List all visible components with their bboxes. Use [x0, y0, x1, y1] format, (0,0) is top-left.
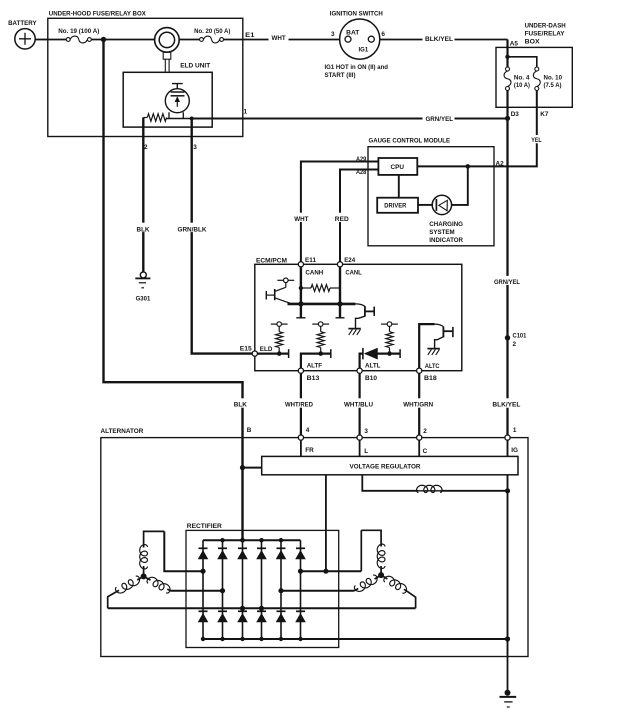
wire ELD pin2 BLK to G301 [142, 118, 144, 272]
diode D8 bottom [199, 610, 208, 612]
ELD unit resistor R1 [143, 117, 147, 119]
diode D10 bottom [238, 610, 247, 612]
wire E1 to ignition switch, WHT [243, 39, 340, 41]
wire B BLK down to rectifier [241, 438, 243, 541]
diode D3 top [218, 547, 227, 549]
terminal 4 FR [298, 435, 303, 440]
wire WHT/GRN B18 to alternator C [418, 373, 420, 435]
svg-text:BLK: BLK [234, 402, 247, 409]
svg-text:D3: D3 [511, 111, 520, 118]
diode D5 top [257, 547, 266, 549]
wire C to regulator [418, 440, 420, 457]
node right stator neutral [378, 572, 384, 578]
wire FR to regulator [300, 440, 302, 457]
svg-text:4: 4 [306, 427, 310, 434]
rectifier diode column 2 vertical [222, 540, 224, 639]
fuse No.4 (10 A) [506, 67, 510, 71]
svg-text:L: L [364, 448, 368, 455]
svg-text:B13: B13 [307, 375, 320, 382]
voltage regulator VR1 [262, 456, 518, 474]
svg-text:INDICATOR: INDICATOR [429, 237, 463, 244]
svg-text:2: 2 [423, 428, 427, 435]
node column5 phase junction [278, 588, 283, 593]
right stator phase3 coil L7 [381, 575, 416, 608]
wire donut to fuse20 [179, 39, 199, 41]
svg-text:(7.5 A): (7.5 A) [544, 82, 562, 89]
ground Q4 emitter [427, 348, 439, 350]
wire ALTF input [301, 354, 331, 369]
svg-text:No. 19 (100 A): No. 19 (100 A) [58, 28, 99, 35]
svg-text:GAUGE CONTROL MODULE: GAUGE CONTROL MODULE [369, 138, 451, 145]
connector C101 pin 2 [505, 335, 510, 340]
svg-text:FR: FR [305, 447, 314, 454]
wire IG through regulator to ground rail [507, 440, 509, 657]
svg-text:1: 1 [244, 109, 248, 116]
phase wire left stator phase1 to column1 [164, 531, 203, 571]
wire GRN/YEL right vertical D3 to C101 [506, 119, 508, 338]
transistor Q4 ALTC [435, 324, 444, 327]
wire ELD pin3 GRN/BLK to E15 [192, 119, 253, 354]
svg-text:WHT: WHT [272, 35, 286, 42]
svg-text:YEL: YEL [531, 137, 541, 144]
svg-text:3: 3 [364, 428, 368, 435]
svg-text:IG1 HOT in ON (II) and: IG1 HOT in ON (II) and [325, 64, 389, 71]
wire ALTL input [360, 354, 363, 369]
svg-text:WHT/RED: WHT/RED [285, 402, 313, 409]
svg-text:No. 10: No. 10 [544, 75, 563, 82]
node B junction to regulator [240, 465, 245, 470]
wire WHT E11 to A29 [301, 162, 379, 263]
diode D11 bottom [257, 610, 266, 612]
node ground bus / IG rail junction [505, 636, 510, 641]
svg-text:No. 4: No. 4 [514, 75, 530, 82]
ELD input pull-up resistor R3 [271, 323, 277, 325]
wire ALTC input riser [419, 324, 434, 368]
svg-text:E24: E24 [344, 257, 355, 264]
wire ignition to under-dash box BLK/YEL [380, 39, 508, 41]
right stator winding L5 top coil [361, 530, 381, 575]
svg-text:UNDER-HOOD FUSE/RELAY BOX: UNDER-HOOD FUSE/RELAY BOX [49, 10, 146, 17]
transistor Q3 CAN driver lower [355, 304, 365, 307]
terminal B13 [298, 368, 303, 373]
svg-text:WHT/GRN: WHT/GRN [403, 402, 433, 409]
node indicator branch junction [466, 164, 471, 169]
left stator winding L2 (three-phase Y) [144, 531, 165, 576]
wire RED E24 to A28 [340, 170, 378, 263]
svg-text:BAT: BAT [346, 29, 359, 36]
svg-text:FUSE/RELAY: FUSE/RELAY [525, 31, 566, 38]
svg-text:E11: E11 [305, 257, 317, 264]
svg-text:E15: E15 [240, 346, 253, 353]
wire WHT/RED B13 to alternator FR [300, 373, 302, 435]
svg-text:2: 2 [144, 144, 148, 151]
phase wire shared bottom phase [108, 607, 416, 609]
phase wire column6 to regulator sense and right stator [301, 570, 362, 572]
node CANH/resistor junction [299, 286, 303, 290]
node A5 branch junction [505, 55, 509, 59]
phase wire column5 to right stator phase2 [281, 590, 355, 592]
node field coil / IG junction [505, 488, 510, 493]
wire C101 to alternator terminal 1 BLK/YEL [506, 338, 508, 438]
svg-text:2: 2 [513, 341, 517, 348]
CAN bus internal rail [288, 303, 356, 306]
svg-text:B10: B10 [365, 375, 378, 382]
CAN termination resistor R2 [301, 287, 311, 289]
svg-text:G301: G301 [136, 296, 151, 303]
svg-text:VOLTAGE REGULATOR: VOLTAGE REGULATOR [350, 464, 421, 471]
svg-text:C: C [423, 448, 428, 455]
svg-text:ALTERNATOR: ALTERNATOR [101, 428, 144, 435]
diode D2 top [199, 547, 208, 549]
DRIVER block U4 [377, 198, 418, 213]
svg-text:ELD UNIT: ELD UNIT [180, 62, 210, 69]
svg-text:UNDER-DASH: UNDER-DASH [525, 23, 566, 30]
ELD current-sensor donut [155, 28, 180, 53]
node ELD/resistor junction [277, 351, 282, 356]
wire ELD unit pin1 GRN/YEL to under-dash D3 [192, 117, 508, 119]
rectifier diode column 1 vertical [202, 540, 204, 639]
terminal 1 IG [505, 435, 510, 440]
svg-text:RECTIFIER: RECTIFIER [187, 523, 222, 530]
svg-text:IG1: IG1 [359, 47, 369, 54]
svg-text:No. 20 (50 A): No. 20 (50 A) [194, 28, 230, 35]
rectifier diode column 5 vertical [280, 540, 282, 639]
svg-text:C101: C101 [513, 333, 527, 340]
svg-text:GRN/BLK: GRN/BLK [178, 226, 207, 233]
node left stator neutral [141, 573, 147, 579]
wire fuse20 to E1 [224, 39, 243, 41]
ELD unit MOSFET Q1 [165, 89, 189, 113]
node junction main feed / BLK branch [101, 37, 106, 42]
svg-text:A2: A2 [496, 160, 505, 167]
svg-text:B18: B18 [424, 375, 437, 382]
diode D12 bottom [277, 610, 286, 612]
left stator phase2 coil L3 [144, 576, 171, 590]
terminal B18 [417, 368, 422, 373]
svg-text:BOX: BOX [525, 38, 541, 45]
ALTL input pull-up resistor R5 [381, 323, 387, 325]
terminal 3 L [357, 435, 362, 440]
wire B junction to regulator [243, 467, 262, 469]
wire regulator to rotor field coil L1 [362, 475, 418, 491]
diode D4 top [238, 547, 247, 549]
svg-text:ALTC: ALTC [425, 363, 440, 370]
wire A5 drop [506, 40, 508, 68]
svg-text:START (III): START (III) [325, 72, 356, 79]
battery B1 positive terminal [15, 29, 35, 49]
node column4 phase junction [259, 606, 264, 611]
diode D1 ALTL [362, 348, 364, 359]
wire BLK branch left vertical [104, 40, 243, 438]
ground Q3 emitter [348, 328, 360, 330]
svg-text:(10 A): (10 A) [514, 82, 530, 89]
wire fuse4 to D3 [506, 91, 508, 119]
svg-text:E1: E1 [245, 32, 255, 39]
rectifier diode column 4 vertical [261, 540, 263, 639]
svg-text:ALTF: ALTF [307, 363, 322, 370]
svg-text:RED: RED [335, 216, 349, 223]
node pin1/pin3 junction [190, 117, 194, 121]
svg-text:CHARGING: CHARGING [429, 221, 463, 228]
wire alternator case ground [507, 657, 509, 693]
transistor Q2 CAN driver upper [277, 279, 283, 281]
node phase/regulator sense junction [323, 569, 328, 574]
ground G chassis [505, 690, 511, 696]
ground G301 [140, 272, 146, 278]
svg-text:BLK/YEL: BLK/YEL [492, 402, 520, 409]
wire branch to fuse No.10 [508, 57, 537, 67]
svg-text:GRN/YEL: GRN/YEL [494, 279, 520, 286]
wire fuse19 to node [91, 39, 155, 41]
svg-text:IG: IG [511, 447, 518, 454]
terminal 2 C [417, 435, 422, 440]
rectifier anode (ground) bus [203, 638, 508, 640]
left stator phase3 coil L4 [108, 576, 144, 608]
svg-text:SYSTEM: SYSTEM [429, 229, 454, 236]
rectifier diode column 6 vertical [300, 540, 302, 639]
rectifier cathode bus [203, 539, 301, 541]
charging system indicator lamp LED1 [432, 195, 451, 214]
rectifier diode column 3 vertical [242, 540, 244, 639]
node D3 junction [505, 116, 510, 121]
svg-text:BLK: BLK [137, 226, 150, 233]
node column1 phase junction [200, 569, 205, 574]
phase wire left stator phase2 to column2 [170, 590, 222, 592]
node ALTL/resistor junction [387, 351, 392, 356]
svg-text:A5: A5 [510, 40, 519, 47]
svg-text:WHT: WHT [294, 216, 308, 223]
wire CPU to driver [398, 175, 400, 198]
wire CPU to A2 [417, 165, 494, 167]
node ALTF/resistor junction [318, 351, 323, 356]
diode D6 top [277, 547, 286, 549]
node column3 phase junction [240, 606, 245, 611]
diode D13 bottom [296, 610, 305, 612]
svg-text:6: 6 [381, 31, 385, 38]
right stator phase2 coil L6 [355, 575, 382, 591]
node CANL rail junction [337, 301, 342, 306]
wire K7 YEL down to A2 [494, 91, 537, 167]
svg-text:DRIVER: DRIVER [384, 203, 406, 210]
wire junction down to indicator [451, 166, 468, 205]
svg-text:CANH: CANH [305, 269, 323, 276]
wire battery to under-hood box [35, 39, 48, 41]
wire regulator phase sense [325, 475, 327, 571]
wire resistor to pin3 corner [167, 118, 192, 120]
svg-text:GRN/YEL: GRN/YEL [426, 116, 454, 123]
CPU block U3 [378, 158, 417, 175]
wire main feed bus [48, 39, 66, 41]
svg-text:1: 1 [513, 427, 517, 434]
svg-text:B: B [247, 427, 252, 434]
svg-text:3: 3 [193, 144, 197, 151]
ALTF input pull-up resistor R4 [312, 323, 318, 325]
svg-text:IGNITION SWITCH: IGNITION SWITCH [330, 10, 383, 17]
svg-text:K7: K7 [540, 111, 549, 118]
fuse No.10 (7.5 A) [535, 67, 539, 71]
svg-text:CPU: CPU [391, 164, 405, 171]
svg-text:BATTERY: BATTERY [8, 20, 37, 27]
wire WHT/BLU B10 to alternator L [359, 373, 361, 435]
diode D9 bottom [218, 610, 227, 612]
terminal B10 [357, 368, 362, 373]
svg-text:ELD: ELD [260, 346, 273, 353]
wire L to regulator [359, 440, 361, 457]
svg-text:3: 3 [331, 31, 335, 38]
svg-text:WHT/BLU: WHT/BLU [344, 402, 373, 409]
wire driver to indicator [418, 204, 433, 206]
node CANH rail junction [298, 301, 303, 306]
svg-text:ALTL: ALTL [365, 363, 381, 370]
node column2 phase junction [220, 588, 225, 593]
svg-text:BLK/YEL: BLK/YEL [425, 36, 453, 43]
node column6 phase junction [298, 569, 303, 574]
diode D7 top [296, 547, 305, 549]
svg-text:CANL: CANL [345, 269, 361, 276]
